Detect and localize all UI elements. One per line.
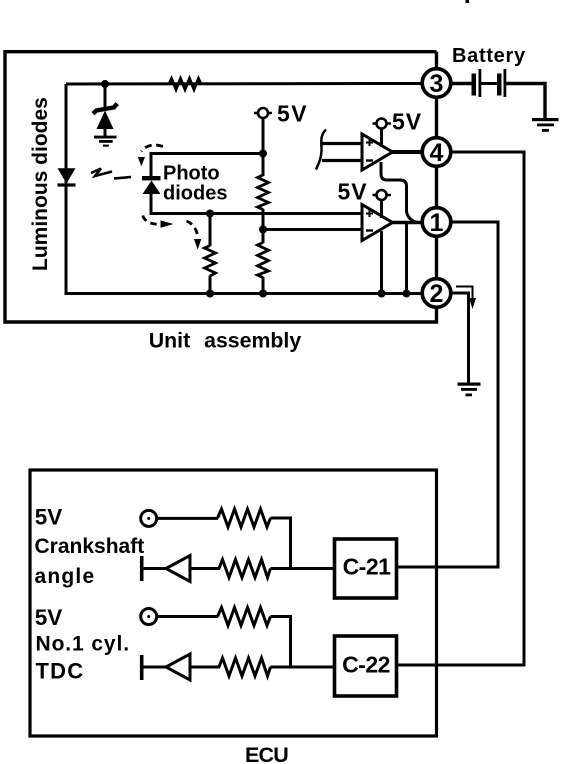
photo diode PD [142,176,161,194]
U1 minus sign [366,159,373,161]
U2 plus sign [366,210,373,217]
resistor R1 (top rail) [169,79,201,90]
wire tick to buffer 2 [142,666,167,669]
dashed arrow above photodiode [142,145,164,151]
svg-text:No.1 cyl.: No.1 cyl. [36,633,130,656]
wire R7 to junction [271,617,291,668]
wire U2 supply [380,200,383,218]
svg-text:diodes: diodes [163,183,227,205]
input brace op-amp U1 [316,130,326,170]
U1 plus sign [366,139,373,146]
wire U1 plus input [322,142,362,145]
wire photo diode top [151,154,263,177]
terminal 1 [422,208,451,237]
5V supply symbol (divider) [254,112,272,115]
wire top rail [66,82,422,86]
svg-text:ECU: ECU [245,743,288,764]
node junction zener tap [101,80,109,88]
svg-text:Luminous diodes: Luminous diodes [29,97,52,271]
resistor R2 (divider upper) [258,175,269,210]
light arrows [91,169,131,179]
resistor R5 [218,509,271,527]
resistor R7 [218,608,271,626]
wire R4 bottom [209,276,212,294]
svg-text:Unit assembly: Unit assembly [149,329,302,353]
ground (battery) [532,118,559,132]
wire terminal 4 to C-22 (right side) [397,152,525,665]
buffer A1 [166,556,190,582]
svg-text:angle: angle [35,565,96,588]
wire U1 supply [380,129,383,148]
dashed arrow down (to resistor) [187,221,198,238]
U2 minus sign [366,229,373,231]
wire R8 to C-22 [271,666,336,669]
supply circle (crankshaft) [141,510,157,526]
zener diode ZD1 [93,84,117,136]
op-amp U1 [362,134,393,170]
wire op-amp2 minus input [263,228,362,231]
ground (zener) [94,136,117,147]
wire luminous diode branch [65,84,68,295]
buffer A2 [166,654,190,680]
svg-text:C-22: C-22 [342,652,390,678]
wire U1 minus input [322,159,362,162]
node junction U1 ground [403,290,411,298]
wire photo diode bottom [151,194,362,214]
wire battery to ground [506,84,545,120]
svg-text:5V: 5V [277,101,308,127]
resistor R4 (photodiode load) [205,246,216,277]
svg-text:5V: 5V [338,179,368,205]
svg-text:Photo: Photo [163,163,220,185]
svg-text:3: 3 [430,70,444,98]
wire R5 to junction [271,518,291,568]
wire U1 output to terminal 4 [391,150,423,154]
wire tick to buffer [142,567,167,570]
wire circle to R7 [158,615,219,618]
output tick (crankshaft) [140,556,144,581]
supply circle (TDC) [141,609,157,625]
svg-text:5V: 5V [35,605,63,630]
wire terminal 2 to ground [451,293,469,383]
svg-text:C-21: C-21 [343,554,392,580]
wire U2 ground pin [380,231,383,294]
5V supply symbol U1 [373,122,392,125]
wire buffer to R6 [190,567,220,570]
node junction photodiode/R4 [206,210,214,218]
dashed arrow right (lower left) [143,216,159,225]
luminous diode LED [58,168,76,186]
page mark top [466,0,470,3]
connector C-21 [335,539,397,598]
wire buffer 2 to R8 [190,666,220,669]
ECU box [30,470,437,736]
node junction divider top [259,150,267,158]
node junction U2 ground [378,290,386,298]
wire terminal 3 to battery [452,82,473,85]
wire ground rail [66,292,422,295]
wire x406 lower segment [405,224,408,294]
svg-text:TDC: TDC [36,659,85,684]
wire U2 output to terminal 1 [391,221,423,224]
wire divider bottom [262,277,265,294]
wire divider mid [262,209,265,243]
svg-text:Battery: Battery [452,45,526,67]
resistor R8 [219,658,271,676]
wire battery mid [481,82,497,85]
wire U1 ground pin (jog to x=406, curving into terminal 1) [381,162,417,222]
terminal 2 [422,279,451,308]
wire divider top [262,118,265,176]
wire terminal 1 to C-21 (right side) [397,222,499,567]
svg-text:5V: 5V [35,505,63,530]
svg-text:4: 4 [430,139,444,167]
resistor R6 [219,560,271,578]
wire circle to R5 [158,517,219,520]
wire R4 top [209,214,212,247]
op-amp U2 [362,205,393,241]
wire R6 to C-21 [271,567,336,570]
terminal 4 [422,138,451,167]
node junction R4 ground [206,290,214,298]
node junction divider mid [259,226,267,234]
output tick (TDC) [140,655,144,680]
svg-text:2: 2 [430,280,444,308]
connector C-22 [335,636,397,696]
svg-text:5V: 5V [392,109,422,135]
unit assembly box [5,52,437,322]
node junction divider ground [259,290,267,298]
svg-text:Crankshaft: Crankshaft [35,535,145,558]
terminal 3 [422,69,451,98]
battery BT1 [472,69,507,97]
current arrow annotation at terminal 2 [456,287,473,300]
ground (terminal 2) [458,383,481,397]
resistor R3 (divider lower) [258,243,269,278]
svg-text:1: 1 [430,209,444,237]
